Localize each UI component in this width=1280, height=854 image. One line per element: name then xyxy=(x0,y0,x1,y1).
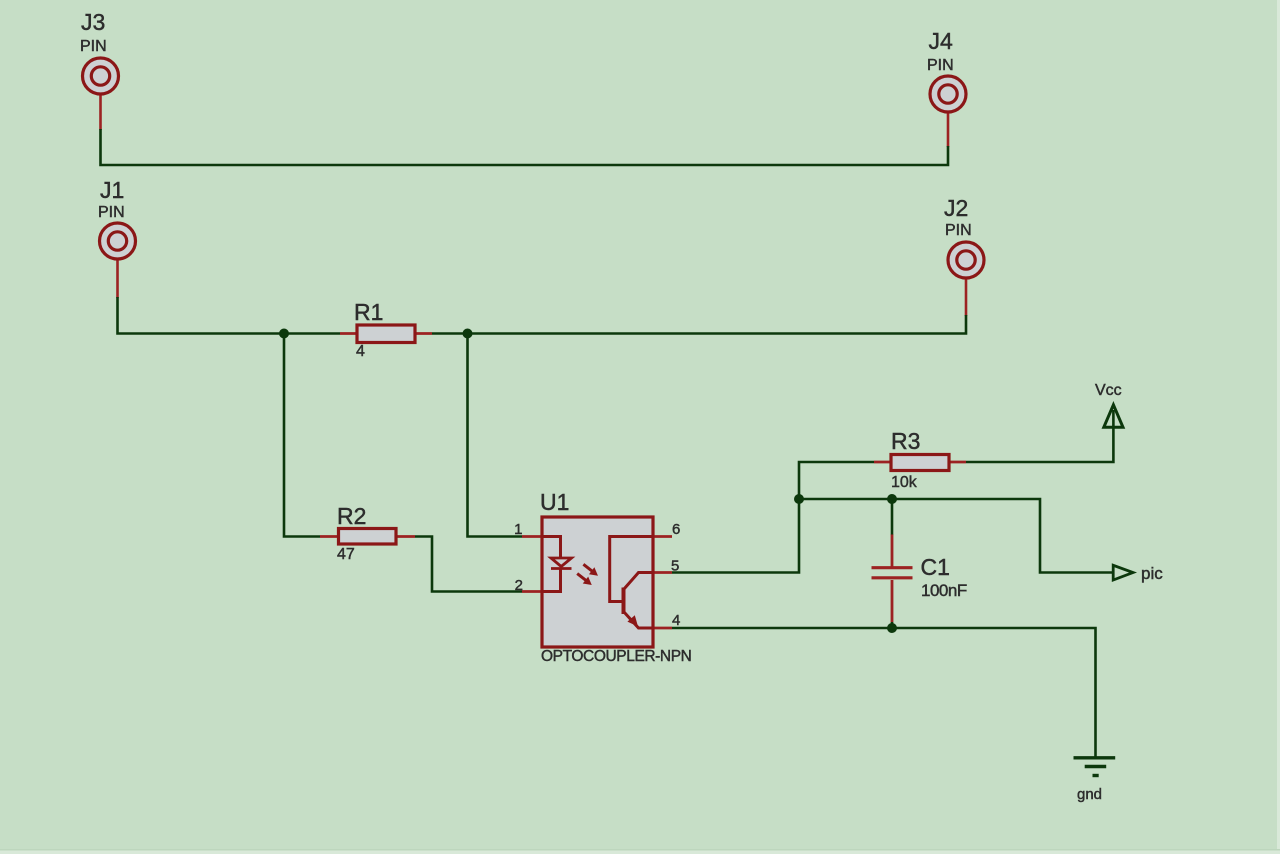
light arrow 2 xyxy=(574,570,594,588)
svg-text:J2: J2 xyxy=(944,195,968,221)
LED triangle xyxy=(551,558,572,567)
svg-text:C1: C1 xyxy=(921,554,950,580)
svg-text:2: 2 xyxy=(515,577,523,594)
wire J3 to J4 xyxy=(101,129,949,165)
svg-text:pic: pic xyxy=(1141,564,1163,583)
svg-text:J4: J4 xyxy=(929,28,954,54)
svg-text:10k: 10k xyxy=(891,474,918,491)
wire U1 pin 4 to gnd xyxy=(672,628,1096,757)
svg-text:4: 4 xyxy=(672,612,680,629)
wire mid rail to pic xyxy=(799,499,1113,573)
connector J4 xyxy=(927,28,966,147)
svg-text:6: 6 xyxy=(672,521,680,538)
junction node rail C1 xyxy=(887,494,897,504)
light arrow 1 xyxy=(581,561,601,579)
svg-text:PIN: PIN xyxy=(80,38,107,55)
transistor base wire xyxy=(610,537,653,602)
connector J3 xyxy=(80,9,119,130)
wire junction down to R2 xyxy=(284,334,320,537)
svg-text:47: 47 xyxy=(337,546,355,563)
power terminal Vcc xyxy=(1095,382,1123,427)
svg-text:PIN: PIN xyxy=(98,204,125,221)
LED anode path xyxy=(542,537,561,559)
wire U1 pin 5 to R3 branch xyxy=(672,462,874,573)
wire R3 to Vcc xyxy=(966,410,1113,462)
svg-text:J3: J3 xyxy=(81,9,105,35)
window edge strip bottom xyxy=(0,849,1280,851)
ground symbol xyxy=(1074,758,1116,803)
wire R1 to J2 xyxy=(432,315,966,334)
pin 1 lead xyxy=(522,535,542,538)
pin 6 lead xyxy=(653,535,672,538)
connector J1 xyxy=(98,177,136,298)
wire R2 to U1 pin 2 xyxy=(415,537,522,592)
pin 2 lead xyxy=(522,590,542,593)
transistor base bar xyxy=(622,588,626,615)
svg-text:PIN: PIN xyxy=(945,222,972,239)
svg-text:100nF: 100nF xyxy=(921,581,967,600)
junction node at R1 left xyxy=(279,329,289,339)
svg-text:U1: U1 xyxy=(540,489,569,515)
svg-text:R3: R3 xyxy=(891,428,920,454)
svg-text:Vcc: Vcc xyxy=(1095,382,1122,399)
wire J1 left segment to R1 xyxy=(118,297,341,334)
pin 5 lead xyxy=(653,571,672,574)
window edge strip right xyxy=(1277,0,1280,854)
svg-text:R2: R2 xyxy=(337,503,366,529)
emitter arrowhead xyxy=(627,615,638,626)
body xyxy=(542,517,653,647)
connector J2 xyxy=(944,195,984,316)
transistor emitter xyxy=(624,612,653,628)
resistor R3 xyxy=(874,428,966,491)
LED cathode bar xyxy=(551,567,572,570)
transistor collector xyxy=(624,573,653,590)
junction node at R1 right xyxy=(463,329,473,339)
svg-text:1: 1 xyxy=(514,521,522,538)
pin 4 lead xyxy=(653,627,672,630)
junction node bottom C1 xyxy=(887,623,897,633)
svg-text:PIN: PIN xyxy=(927,57,954,74)
svg-text:gnd: gnd xyxy=(1077,786,1102,803)
optocoupler U1 xyxy=(514,489,691,665)
svg-text:OPTOCOUPLER-NPN: OPTOCOUPLER-NPN xyxy=(541,648,691,665)
wire junction down to U1 pin 1 xyxy=(468,334,523,537)
LED cathode path xyxy=(542,569,561,592)
terminal pic xyxy=(1113,564,1163,583)
svg-text:J1: J1 xyxy=(100,177,124,203)
svg-text:R1: R1 xyxy=(354,299,383,325)
capacitor C1 xyxy=(872,499,967,628)
resistor R1 xyxy=(340,299,432,360)
svg-text:4: 4 xyxy=(356,343,365,360)
resistor R2 xyxy=(320,503,415,563)
junction node rail left xyxy=(794,494,804,504)
